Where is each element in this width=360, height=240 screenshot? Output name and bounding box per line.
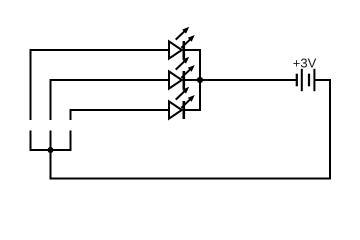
switch S1 lower contact stub xyxy=(30,131,32,152)
LED D3 emission arrow b xyxy=(181,95,195,108)
battery BT1 long plate 1 xyxy=(301,69,303,91)
wire battery to right corner xyxy=(314,79,331,81)
LED D2 wire to cathode bus xyxy=(184,79,200,81)
LED D2 emission arrow b xyxy=(181,65,195,78)
LED D1 triangle xyxy=(169,41,182,58)
wire from switch S3 to LED D3 anode xyxy=(71,110,170,120)
wire from switch bus down to bottom rail, then bottom rail to battery positive xyxy=(51,79,331,179)
LED D1 xyxy=(169,27,200,59)
wire cathode node to battery negative xyxy=(199,79,296,81)
LED D3 emission arrow a xyxy=(176,87,190,100)
junction node: cathode bus to battery xyxy=(197,77,203,83)
svg-text:+3V: +3V xyxy=(293,56,317,71)
wire from switch S1 to LED D1 anode xyxy=(31,50,170,120)
battery BT1 xyxy=(297,69,315,91)
LED D3 triangle xyxy=(169,101,182,118)
LED D1 wire to cathode bus xyxy=(184,49,200,51)
wire common switch bus xyxy=(30,149,72,151)
battery BT1 short plate 2 xyxy=(308,74,310,87)
switch S2 lower contact stub xyxy=(50,131,52,152)
LED D3 cathode bar xyxy=(183,101,186,119)
LED D1 emission arrow a xyxy=(176,27,190,40)
LED D2 xyxy=(169,57,200,89)
LED D3 xyxy=(169,87,200,119)
LED D2 emission arrow a xyxy=(176,57,190,70)
wire cathode bus xyxy=(199,49,201,111)
LED D2 triangle xyxy=(169,71,182,88)
LED D1 cathode bar xyxy=(183,41,186,59)
LED D1 emission arrow b xyxy=(181,35,195,48)
battery BT1 short plate 1 xyxy=(296,74,298,87)
LED D2 cathode bar xyxy=(183,71,186,89)
battery BT1 long plate 2 xyxy=(313,69,315,91)
switch S3 lower contact stub xyxy=(70,131,72,152)
wire from switch S2 to LED D2 anode xyxy=(51,80,170,120)
LED D3 wire to cathode bus xyxy=(184,109,200,111)
junction node: switch bus to bottom rail xyxy=(48,147,54,153)
